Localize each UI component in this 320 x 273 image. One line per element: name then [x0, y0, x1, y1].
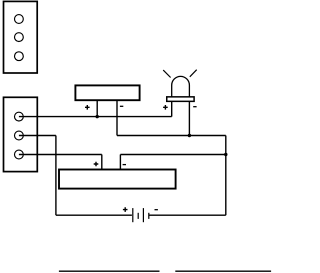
- LED ray right: [190, 70, 197, 77]
- LED ray left: [163, 70, 170, 77]
- connector J2 pin 2: [15, 131, 24, 140]
- bottom rule left: [59, 270, 160, 272]
- module + label: [94, 162, 99, 167]
- battery BT1 plate short 1: [137, 213, 139, 219]
- LED + lead (anode): [171, 101, 173, 116]
- battery BT1 plate long 2: [142, 208, 144, 222]
- LED + label: [163, 105, 168, 110]
- connector J2 body: [4, 97, 38, 171]
- buzzer BZ1 body: [75, 85, 139, 100]
- wire: left vertical drop V2: [55, 136, 57, 216]
- battery BT1 plate long 1: [132, 208, 134, 222]
- module M1 body: [59, 170, 176, 189]
- module M1 - lead: [119, 155, 121, 170]
- wire: module - lead to right drop: [120, 154, 225, 156]
- junction dot LED-/row: [188, 134, 191, 137]
- buzzer - label: [120, 105, 123, 107]
- LED - lead (cathode): [188, 101, 190, 135]
- buzzer - lead: [116, 100, 118, 135]
- wire row3: J2 pin3 to module + lead: [19, 154, 102, 156]
- LED D1 flange: [167, 97, 194, 102]
- module M1 + lead: [101, 155, 103, 170]
- connector J1 pin 2: [15, 33, 24, 42]
- wire: battery - to bottom right: [149, 214, 226, 216]
- connector J2 pin 3: [15, 150, 24, 159]
- module - label: [123, 164, 126, 166]
- junction dot module-/V3: [224, 153, 227, 156]
- junction dot buzzer+/row1: [96, 115, 99, 118]
- wire: bottom left to battery +: [56, 214, 132, 216]
- LED D1 dome: [172, 76, 190, 97]
- bottom rule right: [175, 270, 271, 272]
- LED - label: [193, 106, 196, 108]
- buzzer + lead: [96, 100, 98, 116]
- wire: right vertical drop V3: [225, 136, 227, 216]
- battery BT1 plate short 2: [148, 213, 150, 219]
- connector J1 pin 1: [15, 15, 24, 24]
- connector J1 pin 3: [15, 52, 24, 61]
- wire row1: J2 pin1 to LED anode: [19, 116, 172, 118]
- wire row2: J2 pin2 to left drop: [19, 135, 56, 137]
- connector J2 pin 1: [15, 112, 24, 121]
- wire: buzzer minus to right drop: [117, 135, 226, 137]
- battery + label: [123, 207, 128, 212]
- buzzer + label: [85, 105, 90, 110]
- connector J1 body: [4, 1, 38, 73]
- battery - label: [155, 209, 158, 211]
